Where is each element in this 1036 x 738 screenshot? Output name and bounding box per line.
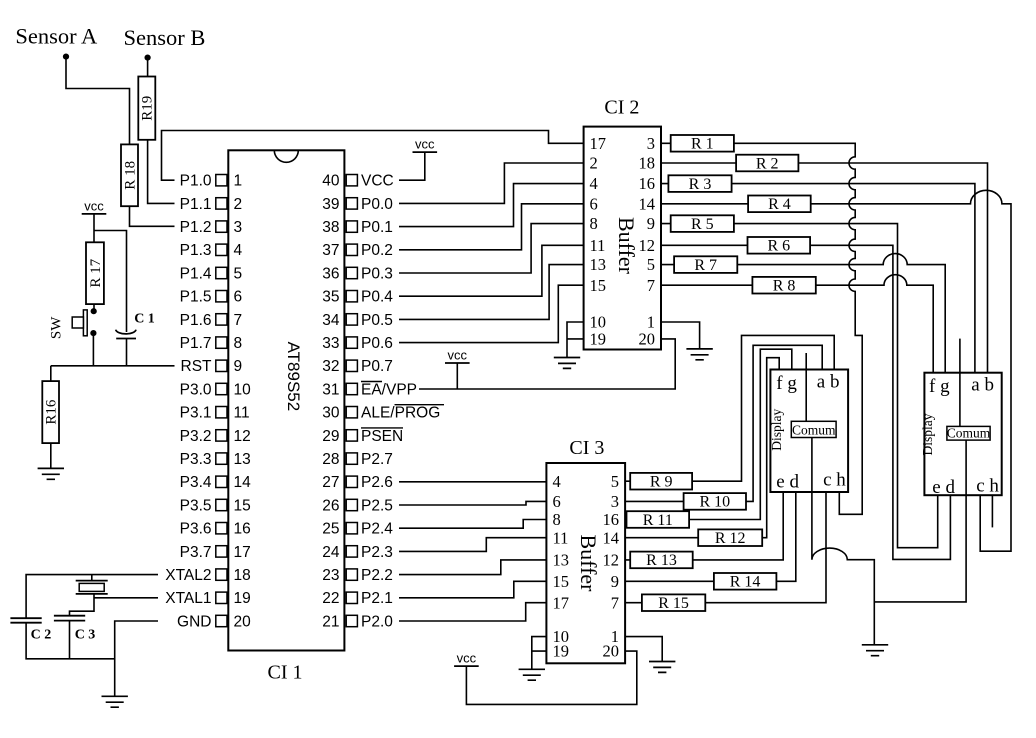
wire VCC pin [399, 152, 425, 180]
svg-text:1: 1 [234, 173, 243, 190]
svg-text:17: 17 [553, 593, 570, 612]
svg-text:6: 6 [234, 289, 243, 306]
svg-text:21: 21 [322, 613, 339, 630]
svg-text:SW: SW [49, 316, 65, 339]
wire R10 net to display1 a [625, 345, 822, 501]
svg-text:13: 13 [234, 451, 251, 468]
svg-text:vcc: vcc [415, 137, 435, 152]
node Sensor A terminal dot [63, 54, 69, 60]
svg-text:31: 31 [322, 381, 339, 398]
resistor R15 [642, 594, 705, 611]
svg-text:15: 15 [590, 276, 607, 295]
svg-text:11: 11 [590, 236, 606, 255]
svg-text:C 2: C 2 [31, 628, 52, 643]
svg-text:20: 20 [234, 613, 252, 630]
svg-text:40: 40 [322, 173, 340, 190]
resistor R10 [684, 493, 746, 510]
ground at CI3 right [649, 662, 675, 673]
svg-text:9: 9 [234, 358, 243, 375]
wire RST line [51, 365, 175, 367]
wire CI2 pins 10,19 to ground [567, 322, 584, 358]
svg-text:20: 20 [639, 330, 656, 349]
svg-text:c h: c h [976, 476, 999, 497]
wire R13 net to display1 e [625, 492, 783, 560]
wire Sensor A to R18 top [66, 57, 130, 145]
wire R6 net to display2 d [661, 245, 950, 559]
svg-text:7: 7 [234, 312, 243, 329]
wire comum bus to ground [873, 602, 875, 645]
wire CI3 pin 1 to ground [625, 637, 662, 662]
svg-text:P1.6: P1.6 [180, 312, 212, 329]
svg-text:38: 38 [322, 219, 339, 236]
resistor R8 [752, 277, 815, 294]
svg-text:R16: R16 [44, 399, 60, 425]
svg-text:17: 17 [234, 544, 251, 561]
svg-text:12: 12 [603, 551, 620, 570]
buffer U2 body (CI 2) [584, 127, 661, 350]
svg-text:34: 34 [322, 312, 340, 329]
svg-text:a b: a b [971, 375, 994, 396]
svg-text:18: 18 [639, 154, 656, 173]
wire display1 comum top stub [805, 353, 807, 421]
svg-text:24: 24 [322, 544, 340, 561]
svg-text:29: 29 [322, 428, 339, 445]
svg-text:9: 9 [647, 214, 655, 233]
svg-text:e d: e d [776, 471, 799, 492]
wire display1 comum below box [811, 438, 813, 493]
svg-text:c h: c h [823, 470, 846, 491]
svg-text:Buffer: Buffer [576, 534, 601, 592]
wire R2 net to display2 b [661, 163, 988, 373]
capacitor C2 [10, 618, 41, 623]
capacitor C1 [116, 330, 136, 339]
svg-text:2: 2 [590, 154, 598, 173]
svg-text:7: 7 [647, 276, 655, 295]
wire display2 comum below box [965, 440, 967, 495]
svg-text:13: 13 [553, 551, 570, 570]
switch SW top contact dot [91, 308, 97, 314]
power vcc (EA/VPP) [445, 362, 470, 364]
wire crystal bottom stub / XTAL1 line [70, 594, 159, 616]
svg-text:GND: GND [177, 613, 211, 630]
svg-text:37: 37 [322, 242, 339, 259]
wire RST to R16 top [50, 366, 52, 381]
svg-text:P2.1: P2.1 [361, 590, 393, 607]
svg-text:R 12: R 12 [715, 530, 746, 547]
wire R7 net to display2 g (hop) [661, 254, 945, 373]
wire P2.5 to CI3 pin 6 [399, 501, 546, 505]
ground at CI3 left [519, 669, 545, 680]
wire C2 bottom to gnd bus [26, 623, 115, 659]
svg-text:Comum: Comum [792, 422, 836, 437]
svg-text:P0.2: P0.2 [361, 242, 393, 259]
svg-text:R 10: R 10 [699, 494, 730, 511]
resistor R17 [86, 242, 104, 304]
wire CI3 pins 10,19 to ground [532, 637, 547, 670]
svg-text:15: 15 [234, 497, 251, 514]
svg-text:Display: Display [920, 413, 935, 455]
svg-text:P3.3: P3.3 [180, 451, 212, 468]
svg-text:35: 35 [322, 289, 339, 306]
svg-text:XTAL1: XTAL1 [165, 590, 211, 607]
svg-text:P1.2: P1.2 [180, 219, 212, 236]
resistor R13 [630, 552, 693, 569]
ground at CI2 right [686, 349, 712, 360]
svg-text:a b: a b [817, 372, 840, 393]
ground below crystal caps [102, 696, 128, 707]
svg-text:P3.5: P3.5 [180, 497, 212, 514]
svg-text:R 6: R 6 [767, 238, 790, 255]
wire vcc branch to C1 [94, 231, 127, 333]
svg-text:33: 33 [322, 335, 339, 352]
svg-text:12: 12 [234, 428, 251, 445]
wire R1 net to display1 h (with hops) [661, 143, 862, 514]
svg-text:P0.4: P0.4 [361, 289, 393, 306]
switch SW bottom contact dot [90, 330, 96, 336]
power vcc (reset network) [82, 213, 107, 215]
svg-text:15: 15 [553, 572, 570, 591]
display DS2 body [924, 373, 1001, 496]
wire CI2 pin 1 to ground [661, 322, 700, 349]
svg-text:R 3: R 3 [689, 176, 712, 193]
switch SW plate [83, 310, 87, 336]
svg-text:PSEN: PSEN [361, 428, 403, 445]
resistor R4 [748, 196, 811, 213]
wire display2 comum top stub [959, 339, 961, 427]
svg-text:14: 14 [639, 194, 656, 213]
svg-text:R 8: R 8 [773, 278, 796, 295]
wire R19 bottom to pin P1.1 [148, 140, 175, 204]
switch SW plunger [72, 317, 83, 328]
wire R11 net to display1 g [625, 349, 792, 519]
wire vcc through R17 to switch [93, 214, 95, 311]
wire R3 net to display2 a [661, 184, 975, 373]
svg-text:f g: f g [929, 376, 950, 397]
svg-text:12: 12 [639, 236, 656, 255]
resistor R5 [671, 215, 734, 232]
wire P0.0 to CI2 pin 2 [399, 163, 584, 203]
display DS1 body [770, 370, 848, 493]
svg-text:P2.2: P2.2 [361, 567, 393, 584]
svg-text:P1.0: P1.0 [180, 173, 212, 190]
svg-text:3: 3 [234, 219, 243, 236]
wire P2.3 to CI3 pin 11 [399, 538, 546, 552]
svg-text:P1.7: P1.7 [180, 335, 212, 352]
wire Sensor B to R19 top [147, 58, 149, 77]
svg-text:13: 13 [590, 255, 607, 274]
svg-text:R 17: R 17 [88, 258, 104, 287]
svg-text:Display: Display [769, 408, 784, 450]
svg-text:4: 4 [590, 174, 598, 193]
svg-text:22: 22 [322, 590, 339, 607]
svg-text:C 1: C 1 [134, 312, 155, 327]
svg-text:R 13: R 13 [646, 552, 677, 569]
svg-text:P2.7: P2.7 [361, 451, 393, 468]
resistor R11 [627, 511, 690, 528]
svg-text:8: 8 [590, 214, 598, 233]
svg-text:P2.0: P2.0 [361, 613, 393, 630]
svg-text:R 7: R 7 [694, 257, 717, 274]
ground for display commons [862, 645, 888, 656]
resistor R1 [671, 135, 734, 152]
svg-text:P0.0: P0.0 [361, 196, 393, 213]
svg-text:32: 32 [322, 358, 339, 375]
wire C3 bottom to gnd bus [69, 621, 71, 659]
svg-text:5: 5 [234, 265, 243, 282]
svg-text:8: 8 [553, 510, 561, 529]
svg-text:P0.6: P0.6 [361, 335, 393, 352]
resistor R16 [42, 381, 59, 443]
svg-text:P0.3: P0.3 [361, 265, 393, 282]
svg-text:R 15: R 15 [658, 595, 689, 612]
capacitor C3 [54, 616, 85, 621]
wire P0.1 to CI2 pin 4 [399, 184, 584, 227]
resistor R14 [714, 573, 777, 590]
svg-text:P0.1: P0.1 [361, 219, 393, 236]
svg-text:R 4: R 4 [768, 196, 791, 213]
svg-text:18: 18 [234, 567, 251, 584]
wire crystal top stub [91, 575, 93, 581]
wire P2.4 to CI3 pin 8 [399, 520, 546, 529]
svg-text:10: 10 [234, 381, 252, 398]
svg-text:P3.7: P3.7 [180, 544, 212, 561]
wire P0.5 to CI2 pin 13 [399, 265, 584, 320]
svg-text:4: 4 [553, 472, 561, 491]
svg-text:P1.5: P1.5 [180, 289, 212, 306]
svg-text:26: 26 [322, 497, 339, 514]
resistor R18 [121, 144, 138, 206]
svg-text:Buffer: Buffer [614, 217, 639, 275]
resistor R2 [736, 155, 798, 172]
svg-text:vcc: vcc [448, 348, 468, 363]
svg-text:6: 6 [553, 492, 561, 511]
display DS1 comum box [791, 421, 836, 437]
microcontroller U1 AT89S52 body (CI 1) [228, 150, 344, 650]
notch on CI 1 [274, 150, 298, 162]
wire EA/VPP to vcc and CI2 pin 20 [419, 339, 675, 389]
svg-text:6: 6 [590, 194, 598, 213]
wire R16 bottom to ground [50, 443, 52, 468]
wire P1.0 to CI2 pin 17 [162, 131, 584, 181]
svg-text:P2.4: P2.4 [361, 521, 393, 538]
wire display2 h stub [991, 495, 993, 527]
svg-text:27: 27 [322, 474, 339, 491]
wire R5 net to display2 e [661, 224, 938, 548]
svg-text:5: 5 [647, 255, 655, 274]
wire R12 net to display1 f [625, 358, 779, 538]
wire P2.2 to CI3 pin 13 [399, 560, 546, 575]
svg-text:C 3: C 3 [75, 628, 96, 643]
wire CI3 pin 20 to vcc [466, 651, 636, 704]
svg-text:RST: RST [181, 358, 213, 375]
svg-text:16: 16 [603, 510, 620, 529]
svg-text:14: 14 [603, 528, 620, 547]
svg-text:5: 5 [611, 472, 619, 491]
wire display1 comum to bus (hop over c) [812, 492, 966, 602]
svg-text:EA/VPP: EA/VPP [361, 381, 417, 398]
svg-text:vcc: vcc [457, 651, 477, 666]
node Sensor B terminal dot [145, 55, 151, 61]
svg-text:P3.2: P3.2 [180, 428, 212, 445]
svg-text:7: 7 [611, 593, 619, 612]
svg-text:AT89S52: AT89S52 [284, 342, 303, 412]
svg-text:28: 28 [322, 451, 339, 468]
wire R9 net to display1 b [625, 335, 834, 481]
wire GND pin to ground [115, 621, 158, 696]
svg-text:P3.1: P3.1 [180, 405, 212, 422]
svg-text:17: 17 [590, 134, 607, 153]
svg-text:e d: e d [932, 477, 955, 498]
wire R18 bottom to pin P1.2 [130, 206, 175, 226]
svg-text:CI 3: CI 3 [569, 437, 604, 459]
svg-text:19: 19 [234, 590, 251, 607]
wire R4 net to display2 c (hop) [661, 190, 1011, 551]
resistor R9 [630, 473, 692, 490]
svg-text:R 18: R 18 [123, 161, 139, 190]
svg-text:16: 16 [234, 521, 251, 538]
wire P0.3 to CI2 pin 8 [399, 224, 584, 273]
svg-text:R 1: R 1 [691, 136, 714, 153]
svg-text:36: 36 [322, 265, 339, 282]
svg-text:R 9: R 9 [650, 474, 673, 491]
svg-text:R 14: R 14 [730, 574, 761, 591]
crystal X1 [76, 581, 108, 594]
resistor R6 [748, 237, 811, 254]
svg-text:CI 2: CI 2 [604, 96, 639, 118]
svg-text:R 11: R 11 [643, 512, 673, 529]
svg-text:9: 9 [611, 572, 619, 591]
svg-text:3: 3 [611, 492, 619, 511]
svg-text:11: 11 [234, 405, 250, 422]
ground at CI2 left [554, 358, 580, 369]
svg-text:P3.6: P3.6 [180, 521, 212, 538]
ground below R16 [38, 468, 64, 479]
svg-text:Comum: Comum [947, 426, 991, 441]
svg-text:P0.7: P0.7 [361, 358, 393, 375]
svg-text:11: 11 [553, 528, 569, 547]
svg-text:P1.4: P1.4 [180, 265, 212, 282]
svg-text:P2.6: P2.6 [361, 474, 393, 491]
svg-text:P3.0: P3.0 [180, 381, 212, 398]
svg-text:P2.5: P2.5 [361, 497, 393, 514]
pin squares of CI 1 [216, 175, 227, 186]
svg-text:4: 4 [234, 242, 243, 259]
wire P2.1 to CI3 pin 15 [399, 581, 546, 598]
svg-text:19: 19 [553, 642, 570, 661]
svg-text:Sensor B: Sensor B [124, 25, 206, 50]
resistor R12 [698, 529, 762, 546]
svg-text:19: 19 [590, 330, 607, 349]
svg-text:39: 39 [322, 196, 339, 213]
svg-text:R 2: R 2 [756, 155, 779, 172]
power vcc (CI1 VCC pin) [413, 151, 438, 153]
resistor R19 [138, 77, 155, 140]
wire P0.4 to CI2 pin 11 [399, 245, 584, 296]
svg-text:CI 1: CI 1 [268, 662, 303, 684]
svg-text:30: 30 [322, 405, 340, 422]
wire R15 net to display1 c [625, 492, 826, 603]
svg-text:P1.1: P1.1 [180, 196, 212, 213]
svg-text:P0.5: P0.5 [361, 312, 393, 329]
svg-text:VCC: VCC [361, 173, 394, 190]
resistor R3 [668, 175, 731, 192]
svg-text:23: 23 [322, 567, 339, 584]
display DS2 comum box [947, 426, 990, 440]
power vcc (CI3 pin 20) [454, 665, 479, 667]
svg-text:8: 8 [234, 335, 243, 352]
svg-text:16: 16 [639, 174, 656, 193]
svg-text:XTAL2: XTAL2 [165, 567, 211, 584]
wire C1 bottom to RST line [126, 339, 128, 366]
svg-text:vcc: vcc [84, 198, 104, 213]
wire P2.6 to CI3 pin 4 [399, 481, 546, 483]
svg-text:25: 25 [322, 521, 339, 538]
wire R8 net to display2 f (hop) [661, 275, 933, 373]
svg-text:P1.3: P1.3 [180, 242, 212, 259]
resistor R7 [674, 256, 737, 273]
wire P2.0 to CI3 pin 17 [399, 603, 546, 621]
wire XTAL2 line to C2 [26, 575, 158, 619]
svg-text:f g: f g [776, 373, 797, 394]
svg-text:R19: R19 [140, 96, 156, 121]
svg-text:3: 3 [647, 134, 655, 153]
buffer U3 body (CI 3) [546, 463, 625, 663]
svg-text:ALE/PROG: ALE/PROG [361, 405, 440, 422]
wire P0.6 to CI2 pin 15 [399, 285, 584, 342]
svg-text:14: 14 [234, 474, 252, 491]
svg-text:2: 2 [234, 196, 243, 213]
svg-text:Sensor A: Sensor A [15, 24, 98, 49]
svg-text:R 5: R 5 [691, 216, 714, 233]
svg-text:20: 20 [603, 642, 620, 661]
svg-text:P2.3: P2.3 [361, 544, 393, 561]
wire P0.2 to CI2 pin 6 [399, 204, 584, 250]
svg-text:P3.4: P3.4 [180, 474, 212, 491]
wire R14 net to display1 d [625, 492, 796, 581]
wire switch bottom to RST line [92, 333, 94, 366]
